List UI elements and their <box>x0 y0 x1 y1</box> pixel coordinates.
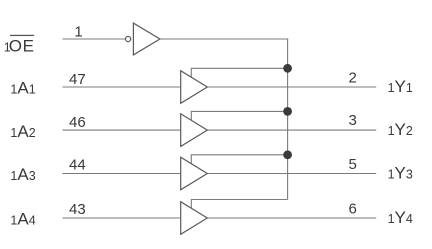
wire: enable rail (vertical) <box>287 38 289 199</box>
buffer 1 (1A1->1Y1) <box>181 71 208 104</box>
wire: 1OE input <box>63 38 126 40</box>
buffer 3 (1A3->1Y3) <box>181 157 208 190</box>
buffer 4 (1A4->1Y4) <box>181 202 208 235</box>
svg-text:1A4: 1A4 <box>10 210 35 229</box>
wire: 1A3 input <box>63 173 181 175</box>
wire: buffer1 enable elbow <box>191 68 287 77</box>
svg-text:1OE: 1OE <box>4 36 35 55</box>
wire: 1Y3 output <box>207 173 376 175</box>
svg-text:5: 5 <box>349 156 357 173</box>
wire: 1A4 input <box>63 217 181 219</box>
svg-text:6: 6 <box>349 200 357 217</box>
wire: 1A1 input <box>63 86 181 88</box>
junction dot: buffer1 enable <box>283 64 292 73</box>
svg-text:2: 2 <box>349 70 357 87</box>
wire: buffer2 enable elbow <box>191 111 287 120</box>
svg-text:1A1: 1A1 <box>10 79 35 98</box>
wire: 1Y4 output <box>207 217 376 219</box>
svg-text:44: 44 <box>69 157 86 174</box>
svg-text:1Y3: 1Y3 <box>388 163 413 182</box>
wire: buffer4 enable elbow <box>191 200 287 209</box>
svg-text:47: 47 <box>69 71 86 88</box>
wire: 1Y1 output <box>207 86 376 88</box>
inverter U1 (OE) <box>133 23 160 55</box>
svg-text:1A2: 1A2 <box>10 122 35 141</box>
junction dot: buffer3 enable <box>283 150 292 159</box>
wire: 1Y2 output <box>207 129 376 131</box>
wire: 1A2 input <box>63 129 181 131</box>
svg-text:43: 43 <box>69 201 86 218</box>
svg-text:3: 3 <box>349 112 357 129</box>
svg-text:1Y4: 1Y4 <box>388 208 413 227</box>
svg-text:1: 1 <box>74 23 82 40</box>
wire: buffer3 enable elbow <box>191 155 287 164</box>
svg-text:1Y2: 1Y2 <box>388 120 413 139</box>
junction dot: buffer2 enable <box>283 107 292 116</box>
svg-text:1Y1: 1Y1 <box>388 77 413 96</box>
inverter U1 input bubble <box>126 36 131 41</box>
buffer 2 (1A2->1Y2) <box>181 114 208 147</box>
wire: inverter output to enable rail <box>160 38 288 40</box>
overline over OE <box>10 35 34 36</box>
svg-text:1A3: 1A3 <box>10 165 35 184</box>
svg-text:46: 46 <box>69 114 86 131</box>
